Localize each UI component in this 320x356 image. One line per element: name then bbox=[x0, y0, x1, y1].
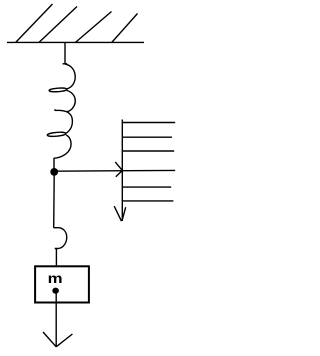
wire: node to scale with arrow bbox=[54, 169, 175, 172]
svg-text:m: m bbox=[48, 271, 63, 286]
weight force arrowhead bbox=[43, 332, 72, 347]
scale tick 5 bbox=[122, 186, 171, 188]
wire: weight force line bbox=[55, 293, 57, 347]
mass box bbox=[35, 266, 89, 302]
axis arrowhead down bbox=[114, 206, 126, 221]
spring coil arc 3 bbox=[66, 112, 72, 133]
spring coil arc 2 bbox=[67, 91, 75, 112]
spring lower coil arc 4 bbox=[54, 135, 71, 158]
spring upper coil arc 1 bbox=[65, 64, 75, 89]
ceiling hatch 1 bbox=[16, 4, 53, 42]
scale tick 1 bbox=[122, 122, 175, 124]
node junction dot bbox=[50, 168, 58, 176]
spring loop 3 bbox=[47, 132, 66, 137]
wire: tick at spring top bbox=[63, 63, 68, 65]
wire: node down bbox=[53, 176, 56, 228]
ceiling hatch 4 bbox=[112, 14, 138, 43]
ceiling hatch 2 bbox=[39, 7, 77, 43]
wire: hook to mass bbox=[55, 249, 57, 266]
ceiling hatch 3 bbox=[76, 12, 112, 43]
spring loop 1 bbox=[49, 88, 67, 93]
arrowhead at scale bbox=[115, 162, 122, 177]
wire: spring bottom to node bbox=[53, 158, 55, 169]
spring loop 2 (flat) bbox=[55, 109, 67, 111]
hook half-loop bbox=[55, 228, 67, 249]
scale tick 3 bbox=[122, 150, 174, 152]
center-of-mass dot bbox=[52, 288, 59, 294]
scale vertical axis bbox=[121, 120, 123, 222]
hook nub top bbox=[54, 227, 60, 229]
ceiling line bbox=[7, 41, 144, 43]
scale tick 6 bbox=[122, 200, 173, 202]
wire: connector ceiling to spring bbox=[64, 42, 66, 64]
scale tick 2 bbox=[122, 136, 172, 138]
